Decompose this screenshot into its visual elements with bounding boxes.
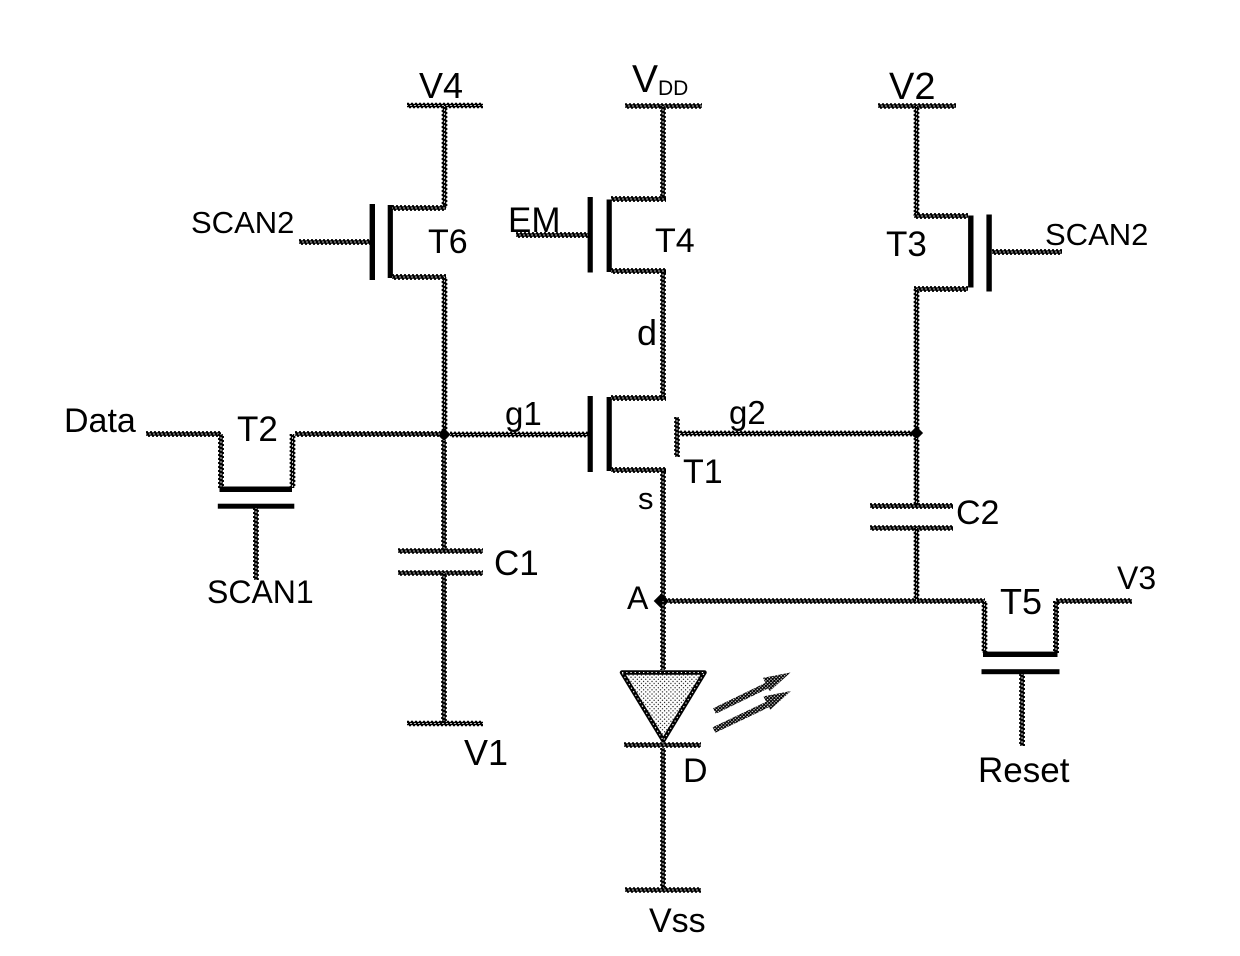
wire T6 source to node g1 <box>442 277 446 430</box>
wire node A row to T5 <box>668 599 985 603</box>
V2 supply rail <box>878 104 956 108</box>
svg-text:SCAN2: SCAN2 <box>191 205 294 240</box>
svg-text:C1: C1 <box>494 544 539 583</box>
light arrow 1 <box>715 686 768 712</box>
svg-text:T2: T2 <box>237 410 278 449</box>
light arrow 2 <box>714 705 768 731</box>
wire T5 gate to Reset <box>1020 674 1024 746</box>
svg-text:s: s <box>638 481 654 516</box>
svg-text:A: A <box>627 580 649 616</box>
wire C2 to row A <box>914 528 918 601</box>
V1 terminal bar <box>407 722 483 726</box>
svg-text:T3: T3 <box>886 225 927 264</box>
transistor T6 <box>370 204 375 280</box>
wire node to C1 <box>442 440 446 551</box>
svg-text:V1: V1 <box>464 732 508 773</box>
node g2 junction <box>910 426 923 439</box>
wire g2 from T1 to node <box>680 431 912 435</box>
LED D triangle <box>622 673 705 741</box>
wire V4 to T6 drain <box>442 106 446 208</box>
wire C1 to V1 <box>442 573 446 722</box>
svg-text:g2: g2 <box>729 394 766 431</box>
wire V2 to T3 drain <box>914 106 918 216</box>
VDD supply rail <box>625 104 702 108</box>
svg-text:VDD: VDD <box>632 58 688 101</box>
wire SCAN2 to T6 gate <box>299 240 370 244</box>
svg-text:Data: Data <box>64 402 136 440</box>
transistor T5 <box>982 601 986 653</box>
svg-text:C2: C2 <box>956 494 999 532</box>
T1 second gate electrode g2 tick <box>675 417 679 457</box>
transistor T3 <box>968 216 973 288</box>
wire VDD to T4 drain <box>661 106 665 199</box>
svg-text:Reset: Reset <box>978 751 1070 790</box>
svg-text:V3: V3 <box>1117 560 1156 596</box>
svg-text:EM: EM <box>508 201 561 240</box>
wire node A to LED anode <box>661 601 665 670</box>
wire node g2 to C2 <box>914 438 918 506</box>
wire T3 source to node g2 <box>914 289 918 429</box>
V4 supply rail <box>407 104 483 108</box>
wire T2 gate to SCAN1 <box>254 508 258 580</box>
svg-text:SCAN1: SCAN1 <box>207 574 314 610</box>
wire g1 from node to T1 gate <box>450 432 588 436</box>
LED cathode bar <box>624 743 701 747</box>
wire T5 to V3 <box>1056 599 1132 603</box>
wire T3 gate to SCAN2 <box>992 250 1062 254</box>
wire T4 source to T1 drain, node d <box>661 271 665 398</box>
transistor T4 <box>588 197 593 273</box>
svg-text:T6: T6 <box>428 223 468 261</box>
node g1 junction <box>437 428 450 441</box>
wire T2 to node g1 <box>295 432 440 436</box>
svg-text:V4: V4 <box>419 65 463 106</box>
svg-text:Vss: Vss <box>649 902 706 940</box>
svg-text:T1: T1 <box>683 453 723 491</box>
node A junction <box>654 593 670 609</box>
wire Data to T2 <box>146 432 221 436</box>
wire LED cathode to Vss <box>661 748 665 888</box>
svg-text:SCAN2: SCAN2 <box>1045 217 1148 252</box>
Vss terminal bar <box>625 888 701 892</box>
capacitor C2 <box>870 504 953 508</box>
transistor T1 <box>588 396 593 472</box>
svg-text:T4: T4 <box>655 222 695 260</box>
svg-text:D: D <box>683 752 708 790</box>
capacitor C1 <box>398 549 483 553</box>
svg-text:d: d <box>637 312 657 353</box>
wire EM to T4 gate <box>516 233 588 237</box>
svg-text:T5: T5 <box>1000 581 1042 622</box>
wire T1 source to node A <box>661 470 665 598</box>
transistor T2 <box>219 434 223 488</box>
svg-text:g1: g1 <box>505 395 542 432</box>
svg-text:V2: V2 <box>889 66 935 108</box>
